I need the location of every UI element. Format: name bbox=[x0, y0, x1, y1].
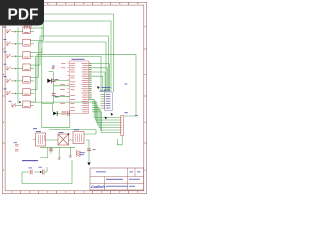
svg-text:PDF: PDF bbox=[8, 6, 39, 23]
svg-text:CadSoft: CadSoft bbox=[91, 185, 106, 189]
